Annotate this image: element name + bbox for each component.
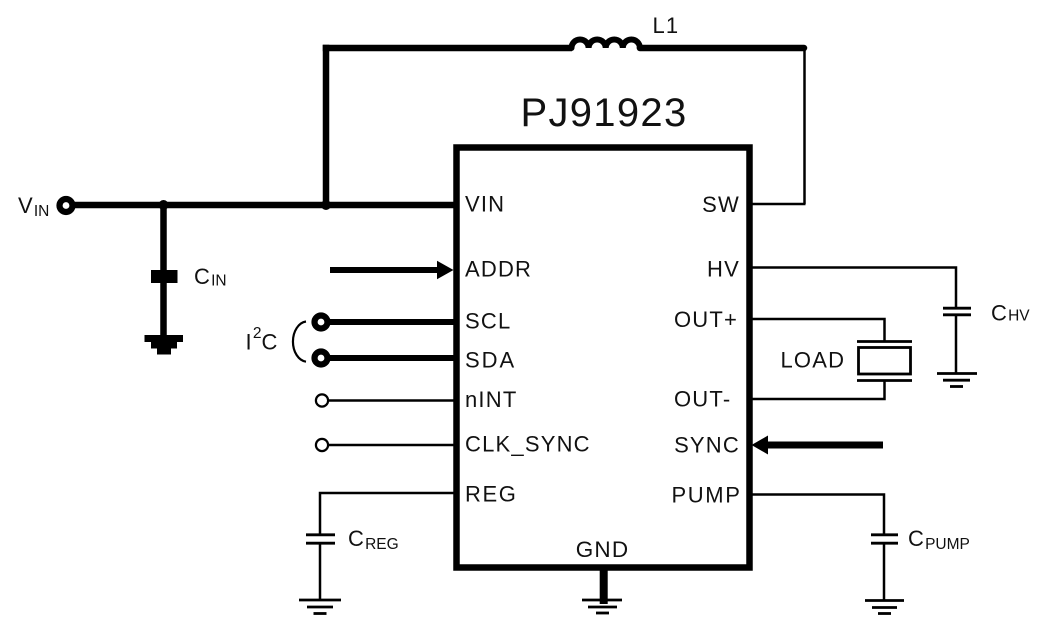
- svg-text:SYNC: SYNC: [674, 433, 740, 458]
- svg-text:VIN: VIN: [465, 192, 505, 217]
- load transducer body: [859, 348, 911, 375]
- svg-text:I2C: I2C: [246, 325, 279, 355]
- input circle nINT: [316, 394, 328, 406]
- node junction dot at riser tap: [321, 200, 331, 210]
- wire CREG to ground: [319, 543, 322, 600]
- wire SDA: [329, 355, 456, 361]
- arrow into SYNC: shaft: [766, 442, 883, 449]
- chip U1 PJ91923 body: [457, 148, 750, 568]
- ground under CREG: [299, 599, 341, 602]
- svg-text:CLK_SYNC: CLK_SYNC: [465, 432, 591, 457]
- capacitor CIN branch wire upper: [160, 205, 167, 270]
- svg-text:OUT-: OUT-: [674, 387, 731, 412]
- ground under GND: [582, 599, 622, 602]
- svg-text:ADDR: ADDR: [465, 257, 532, 282]
- wire: VIN input rail: [72, 202, 456, 209]
- svg-text:SDA: SDA: [465, 348, 516, 373]
- wire: top rail left of L1: [323, 45, 572, 52]
- node junction dot at CIN tap: [159, 200, 169, 210]
- svg-text:REG: REG: [465, 482, 517, 507]
- wire: top rail right of L1: [640, 45, 804, 52]
- wire CHV to ground: [955, 315, 958, 374]
- svg-text:nINT: nINT: [465, 387, 517, 412]
- wire PUMP to CPUMP: [750, 495, 884, 536]
- ground under CHV: [937, 372, 977, 375]
- wire OUT+ to load: [750, 319, 885, 342]
- arrow into ADDR: head: [437, 261, 454, 279]
- capacitor CPUMP: [871, 533, 898, 536]
- wire: SW drop vertical: [803, 48, 806, 204]
- wire: riser to inductor rail: [323, 45, 330, 208]
- svg-text:L1: L1: [653, 13, 680, 38]
- capacitor CHV: [943, 307, 971, 310]
- svg-text:SCL: SCL: [465, 309, 511, 334]
- inductor L1: [572, 39, 640, 48]
- wire: SW pin stub: [750, 203, 806, 206]
- wire nINT: [329, 399, 456, 402]
- brace arc for I2C pair: [293, 322, 306, 362]
- svg-text:LOAD: LOAD: [781, 348, 846, 373]
- capacitor CIN branch wire lower: [160, 283, 167, 336]
- wire CPUMP to ground: [883, 543, 886, 600]
- terminal VIN (bold donut): [60, 199, 73, 212]
- ground (solid stepped) under CIN: [145, 335, 184, 342]
- svg-text:SW: SW: [702, 192, 740, 217]
- wire OUT- from load: [750, 381, 885, 400]
- svg-text:GND: GND: [576, 537, 630, 562]
- wire REG to CREG: [320, 493, 456, 535]
- arrow into ADDR: shaft: [330, 267, 440, 273]
- terminal SCL (bold donut): [315, 316, 328, 329]
- wire SCL: [329, 319, 456, 325]
- wire HV to CHV: [750, 268, 956, 309]
- svg-text:PJ91923: PJ91923: [520, 91, 687, 135]
- load transducer bottom plate: [857, 379, 912, 382]
- wire GND stub: [600, 568, 608, 604]
- capacitor CREG: [306, 533, 335, 536]
- capacitor CIN (solid block): [151, 270, 178, 283]
- arrow into SYNC: head: [752, 436, 769, 455]
- svg-text:PUMP: PUMP: [672, 483, 742, 508]
- ground under CPUMP: [865, 599, 904, 602]
- terminal SDA (bold donut): [315, 352, 328, 365]
- load transducer top plate: [857, 340, 912, 343]
- svg-text:HV: HV: [707, 257, 740, 282]
- wire CLK_SYNC: [329, 444, 456, 447]
- input circle CLK_SYNC: [316, 439, 328, 451]
- svg-text:OUT+: OUT+: [674, 307, 738, 332]
